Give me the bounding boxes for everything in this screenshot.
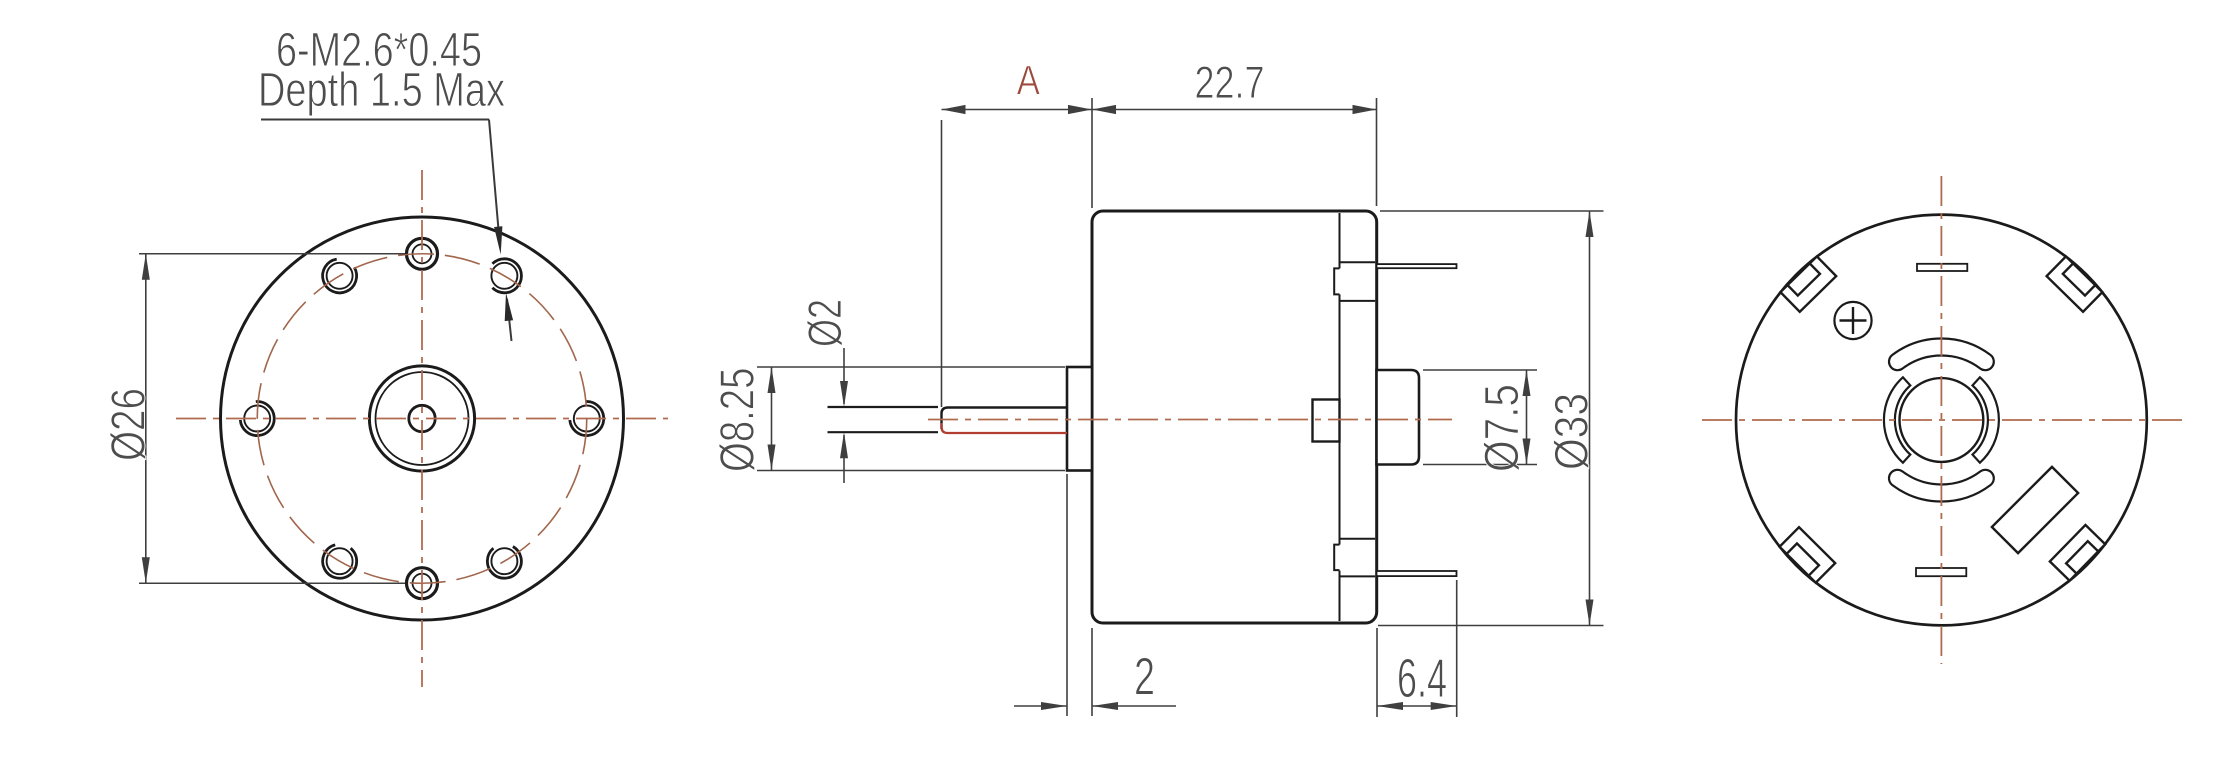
front shaft boss outer circle xyxy=(369,366,474,471)
shaft sleeve outline xyxy=(942,408,1068,430)
svg-text:Ø26: Ø26 xyxy=(103,388,156,461)
side view centerline xyxy=(928,419,1452,421)
dimension Ø7.5 extension bottom xyxy=(1423,464,1537,466)
tapped hole NW xyxy=(327,263,353,289)
terminal pin bottom xyxy=(1377,571,1457,576)
rear view outer circle xyxy=(1736,215,2147,626)
dimension Ø7.5 line xyxy=(1526,370,1528,465)
dimension 22.7 line xyxy=(1092,109,1377,111)
crimp tab bottom xyxy=(1340,538,1376,540)
front view horizontal centerline xyxy=(176,418,668,420)
vent slot top xyxy=(1889,339,1994,371)
leader lower arrow xyxy=(507,299,512,341)
svg-text:Ø8.25: Ø8.25 xyxy=(712,368,765,472)
svg-text:Depth 1.5 Max: Depth 1.5 Max xyxy=(258,64,505,117)
dimension 2 line xyxy=(1014,705,1067,707)
dimension 6.4 line xyxy=(1377,705,1457,707)
front view outer circle xyxy=(221,217,624,620)
svg-text:2: 2 xyxy=(1134,648,1155,707)
corner notch NW xyxy=(1780,256,1836,311)
dimension 2 extension left xyxy=(1066,474,1068,716)
crimp tab top xyxy=(1340,261,1376,263)
dimension A extension line xyxy=(941,120,943,407)
rivet slot bottom xyxy=(1916,568,1966,576)
dimension Ø26 extension line top xyxy=(139,253,405,255)
front view bolt circle Ø26 (dashed) xyxy=(257,254,587,584)
rear bearing boss xyxy=(1377,370,1420,465)
dimension Ø8.25 line xyxy=(771,367,773,471)
dimension Ø26 line xyxy=(145,254,147,584)
dimension 6.4 extension right xyxy=(1456,580,1458,717)
svg-text:6.4: 6.4 xyxy=(1397,647,1447,709)
rivet slot top xyxy=(1917,264,1967,271)
dimension Ø2 arrows xyxy=(843,348,845,404)
dimension 6.4 extension left xyxy=(1376,628,1378,717)
dimension Ø8.25 extension top xyxy=(757,366,1065,368)
vent slot bottom xyxy=(1889,470,1994,502)
shaft sleeve red line xyxy=(942,423,1068,433)
extension line cap right above xyxy=(1376,98,1378,206)
mounting hole S xyxy=(407,568,438,599)
svg-text:A: A xyxy=(1017,57,1040,104)
rear bearing circle xyxy=(1900,378,1984,462)
svg-text:Ø2: Ø2 xyxy=(798,299,851,347)
tapped hole NE xyxy=(491,263,517,289)
svg-text:Ø7.5: Ø7.5 xyxy=(1476,384,1529,472)
leader underline xyxy=(261,119,489,121)
corner notch SE xyxy=(2050,525,2105,581)
terminal pin top xyxy=(1377,264,1457,268)
dimension Ø33 line xyxy=(1589,211,1591,626)
front shaft boss inner circle xyxy=(376,372,469,465)
corner notch SW xyxy=(1780,527,1836,583)
dimension Ø7.5 extension top xyxy=(1423,369,1537,371)
polarity mark + xyxy=(1834,302,1871,339)
tapped hole W xyxy=(244,406,270,432)
extension line body left above xyxy=(1091,98,1093,208)
svg-text:Ø33: Ø33 xyxy=(1545,393,1598,470)
dimension Ø8.25 extension bottom xyxy=(757,470,1065,472)
rear view horizontal centerline xyxy=(1702,419,2186,421)
tapped hole SW xyxy=(327,548,353,574)
front shaft hole xyxy=(409,405,435,431)
brush pocket rect xyxy=(1992,467,2078,553)
dimension Ø26 extension line bottom xyxy=(139,582,405,584)
dimension A line xyxy=(942,109,1093,111)
end cap seam xyxy=(1339,213,1341,268)
bearing retainer arc left xyxy=(1884,377,1910,462)
brush holder inner rect xyxy=(1313,400,1340,442)
shaft (Ø2 section) xyxy=(828,406,939,408)
dimension 2 extension right xyxy=(1091,628,1093,716)
dimension Ø33 extension bottom xyxy=(1378,625,1604,627)
dimension Ø33 extension top xyxy=(1380,210,1604,212)
tapped hole SE xyxy=(491,548,517,574)
motor body xyxy=(1092,211,1377,623)
rear view vertical centerline xyxy=(1940,176,1942,664)
corner notch NE xyxy=(2047,256,2103,311)
leader line to hole NE xyxy=(489,120,500,248)
svg-text:22.7: 22.7 xyxy=(1195,57,1265,108)
bearing retainer arc right xyxy=(1973,377,1999,462)
mounting hole N xyxy=(407,238,438,269)
front view vertical centerline xyxy=(421,170,423,687)
tapped hole E xyxy=(574,406,600,432)
front bearing boss xyxy=(1067,367,1092,471)
